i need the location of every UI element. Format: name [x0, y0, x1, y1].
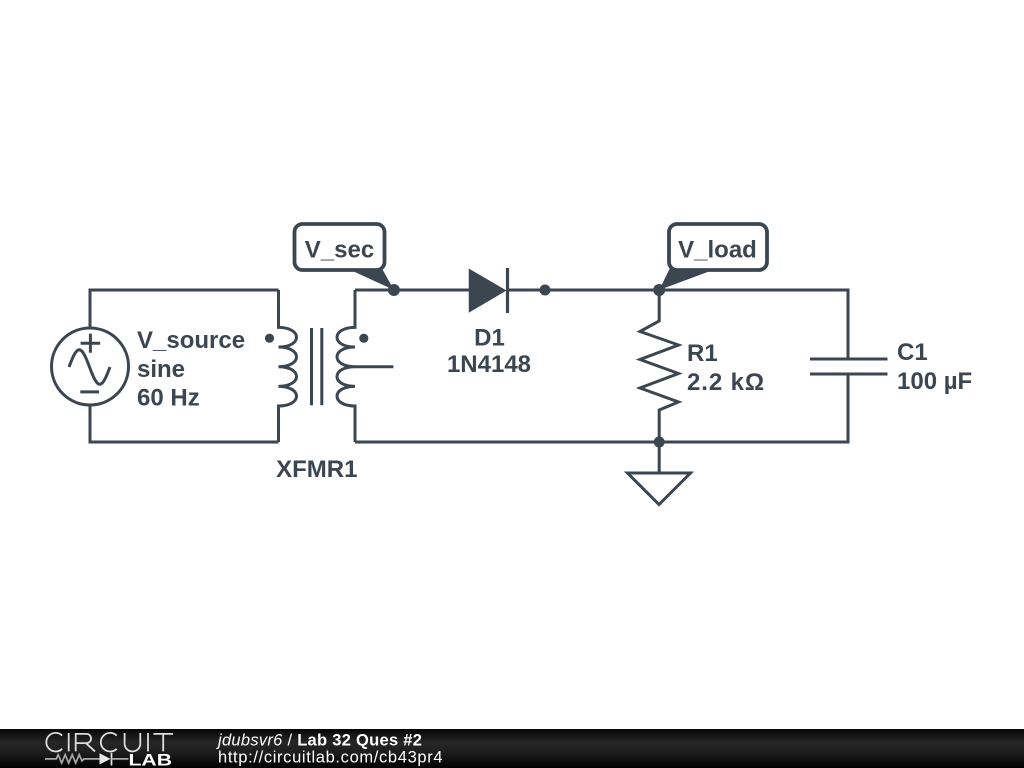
footer bar: [0, 729, 1024, 768]
node V_load dot: [653, 284, 665, 296]
svg-text:LAB: LAB: [129, 752, 173, 768]
voltage source V_source: [52, 328, 129, 405]
junction dot diode output: [540, 285, 551, 296]
junction dot bottom: [654, 437, 665, 448]
diode D1: [470, 268, 508, 313]
wire bottom right: [355, 374, 848, 442]
svg-text:1N4148: 1N4148: [447, 351, 531, 378]
svg-text:D1: D1: [474, 325, 505, 352]
node label callout V_sec: [295, 224, 394, 290]
transformer XFMR1: [265, 290, 394, 442]
CircuitLab logo circuit line: [45, 753, 129, 766]
svg-text:V_sec: V_sec: [305, 237, 374, 264]
node V_sec dot: [388, 284, 400, 296]
wire diode to capacitor: [508, 290, 849, 359]
wire left top: [90, 290, 279, 329]
R1 label: [687, 340, 765, 396]
svg-text:XFMR1: XFMR1: [276, 456, 357, 483]
svg-text:sine: sine: [137, 356, 185, 383]
wire secondary to diode: [355, 289, 470, 292]
svg-text:http://circuitlab.com/cb43pr4: http://circuitlab.com/cb43pr4: [218, 749, 443, 767]
ground: [628, 442, 691, 505]
node label callout V_load: [659, 224, 767, 290]
CircuitLab logo text CIRCUIT: [46, 733, 173, 752]
capacitor C1: [810, 359, 888, 374]
D1 label: [447, 325, 531, 379]
svg-text:60 Hz: 60 Hz: [137, 385, 200, 412]
resistor R1: [640, 290, 679, 442]
V_source label: [137, 327, 245, 412]
svg-text:V_load: V_load: [678, 237, 757, 264]
svg-text:C1: C1: [897, 339, 928, 366]
svg-text:V_source: V_source: [137, 327, 245, 354]
svg-text:100 µF: 100 µF: [897, 368, 972, 395]
wire left bottom: [90, 404, 279, 442]
svg-text:R1: R1: [687, 340, 718, 367]
svg-text:jdubsvr6 / Lab 32 Ques #2: jdubsvr6 / Lab 32 Ques #2: [216, 732, 422, 750]
C1 label: [897, 339, 972, 395]
svg-text:2.2 kΩ: 2.2 kΩ: [687, 369, 765, 396]
